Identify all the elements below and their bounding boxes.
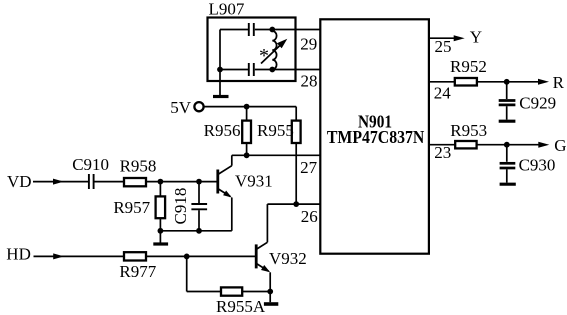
node base/R957 junction <box>158 179 164 185</box>
resistor R957 <box>159 182 161 197</box>
svg-text:C918: C918 <box>171 188 190 225</box>
svg-text:C910: C910 <box>72 155 109 174</box>
node R955 / pin26 junction <box>293 201 299 207</box>
resistor R955A <box>221 287 242 295</box>
transistor V931 <box>216 170 219 194</box>
svg-text:R957: R957 <box>113 198 150 217</box>
node base/R955A junction <box>184 254 190 260</box>
svg-text:26: 26 <box>301 207 318 226</box>
wire C910 to R958 <box>95 181 125 183</box>
wire R952 to R output <box>477 81 539 83</box>
wire pin 26 <box>267 203 320 205</box>
wire VD input <box>33 181 88 183</box>
svg-text:24: 24 <box>434 84 452 103</box>
capacitor C918 <box>198 182 200 203</box>
resistor R955 <box>295 107 297 121</box>
svg-text:R: R <box>553 73 565 92</box>
resistor R958 <box>124 178 146 186</box>
resistor R952 <box>455 78 477 86</box>
wire pin 29 from L907 to IC <box>255 29 320 31</box>
resistor R977 <box>124 252 146 260</box>
ground of V931 emitter rail <box>159 231 161 243</box>
arrow on HD wire <box>53 253 64 259</box>
arrow to R <box>538 79 549 85</box>
svg-text:25: 25 <box>435 37 452 56</box>
node R956 / pin27 junction <box>244 152 250 158</box>
svg-text:5V: 5V <box>170 98 192 117</box>
svg-text:29: 29 <box>300 34 317 53</box>
wire pin 27 <box>232 154 320 156</box>
wire pin 25 output <box>429 37 455 39</box>
arrow on VD wire <box>53 179 64 185</box>
resistor R956 <box>246 107 248 121</box>
wire top branch inside L907 <box>220 29 248 31</box>
svg-text:R956: R956 <box>204 121 241 140</box>
wire 5V rail <box>203 106 296 108</box>
svg-text:HD: HD <box>6 245 31 264</box>
svg-text:L907: L907 <box>209 0 245 18</box>
svg-text:23: 23 <box>434 143 451 162</box>
capacitor top inside L907 <box>249 23 254 36</box>
capacitor C910 <box>89 174 94 189</box>
svg-text:R953: R953 <box>450 121 487 140</box>
node bottom cap / coil junction <box>269 67 275 73</box>
adjustment arrow through coil <box>261 44 282 64</box>
wire pin 23 to R953 <box>429 144 455 146</box>
node 5V / R956 junction <box>244 104 250 110</box>
node junction R line / C929 <box>504 79 510 85</box>
svg-text:C930: C930 <box>519 155 556 174</box>
wire left internal vertical of L907 <box>219 30 221 82</box>
svg-text:27: 27 <box>300 158 318 177</box>
arrow to Y <box>454 35 465 41</box>
svg-text:28: 28 <box>301 71 318 90</box>
wire R955A to emitter <box>242 291 270 293</box>
capacitor bottom inside L907 <box>249 63 254 76</box>
wire bottom branch inside L907 <box>220 69 248 71</box>
svg-text:R977: R977 <box>119 262 156 281</box>
node R957/rail junction <box>158 228 164 234</box>
IC U/N901 box <box>320 19 429 253</box>
svg-text:V931: V931 <box>235 172 273 191</box>
ground of C930 <box>500 183 516 186</box>
svg-text:Y: Y <box>470 27 482 46</box>
node base/C918 junction <box>196 179 202 185</box>
inductor adjustable coil in L907 <box>272 31 276 69</box>
wire R958 to V931 base <box>146 181 218 183</box>
wire pin 24 to R952 <box>429 81 455 83</box>
svg-text:R952: R952 <box>450 57 487 76</box>
transistor V932 <box>255 244 258 268</box>
svg-text:G: G <box>554 136 566 155</box>
node left bottom junction in L907 <box>217 67 223 73</box>
wire HD input <box>34 255 125 257</box>
node junction G line / C930 <box>504 142 510 148</box>
svg-text:C929: C929 <box>519 94 556 113</box>
svg-text:VD: VD <box>7 172 32 191</box>
resistor R953 <box>455 141 476 148</box>
svg-text:TMP47C837N: TMP47C837N <box>327 127 425 147</box>
node emitter/R955A/ground junction <box>267 289 273 295</box>
ground of L907 <box>219 81 221 95</box>
svg-text:R955A: R955A <box>216 297 266 315</box>
capacitor C930 <box>506 145 508 162</box>
node top cap / coil junction <box>269 27 275 33</box>
wire R977 to V932 base <box>146 255 256 257</box>
ground of V932 emitter <box>269 292 271 303</box>
svg-text:R955: R955 <box>257 121 294 140</box>
svg-text:R958: R958 <box>120 156 157 175</box>
arrow to G <box>538 142 549 148</box>
capacitor C929 <box>506 82 508 99</box>
svg-text:V932: V932 <box>269 249 307 268</box>
resonator block L907 box <box>208 18 296 82</box>
wire R953 to G output <box>477 144 539 146</box>
svg-text:*: * <box>259 45 269 67</box>
wire base branch down to R955A <box>186 256 188 291</box>
node C918/rail junction <box>196 228 202 234</box>
wire pin 28 from L907 to IC <box>255 69 320 71</box>
ground of C929 <box>499 120 516 123</box>
wire emitter bottom rail <box>160 230 231 232</box>
